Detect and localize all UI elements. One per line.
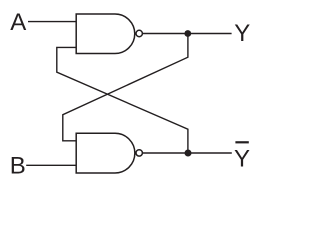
svg-text:A: A xyxy=(10,9,26,36)
wire A input xyxy=(28,21,76,23)
overbar on Y-bar xyxy=(235,141,248,143)
wire Y-bar output xyxy=(143,152,232,154)
wire feedback from Y-bar to U1 bottom input xyxy=(57,47,188,153)
bubble U1 output xyxy=(136,30,142,36)
junction node at Y xyxy=(184,30,191,37)
wire Y output xyxy=(143,33,232,35)
junction node at Y-bar xyxy=(185,150,192,157)
svg-text:Y: Y xyxy=(234,146,250,173)
nand gate U1 (top) xyxy=(76,14,135,54)
svg-text:B: B xyxy=(10,153,26,180)
nand gate U2 (bottom) xyxy=(76,133,135,173)
svg-text:Y: Y xyxy=(234,20,250,47)
wire feedback from Y to U2 top input xyxy=(63,34,188,141)
bubble U2 output xyxy=(136,150,142,156)
wire B input xyxy=(26,164,76,166)
